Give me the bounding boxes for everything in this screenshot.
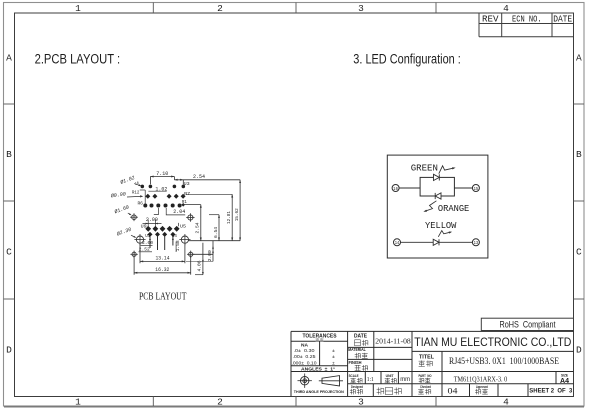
svg-text:2.54: 2.54 (193, 174, 205, 180)
svg-text:2.00: 2.00 (207, 250, 213, 261)
svg-text:TITEL: TITEL (419, 355, 434, 361)
svg-text:DATE: DATE (354, 334, 368, 340)
svg-text:B: B (576, 149, 582, 160)
svg-text:15.62: 15.62 (234, 208, 240, 221)
svg-text:±: ± (332, 348, 335, 354)
svg-text:2.04: 2.04 (173, 209, 185, 215)
svg-text:ECN NO.: ECN NO. (512, 15, 542, 25)
svg-text:±: ± (332, 354, 335, 360)
svg-text:TOLERANCES: TOLERANCES (303, 333, 338, 339)
svg-text:2014-11-08: 2014-11-08 (375, 337, 411, 345)
svg-text:NA: NA (301, 342, 309, 347)
svg-text:2.54: 2.54 (195, 222, 201, 233)
svg-text:15: 15 (474, 186, 479, 192)
svg-text:04: 04 (448, 386, 458, 395)
svg-text:U1: U1 (145, 235, 150, 239)
svg-text:ANGLES ± 1°: ANGLES ± 1° (301, 366, 335, 371)
svg-text:GREEN: GREEN (411, 163, 438, 174)
svg-text:Approved: Approved (476, 385, 488, 389)
svg-text:12.81: 12.81 (226, 211, 232, 224)
svg-text:SCALE: SCALE (349, 374, 359, 378)
svg-text:7.10: 7.10 (156, 171, 168, 177)
svg-text:.0± 0.30: .0± 0.30 (294, 348, 315, 354)
svg-text:A4: A4 (560, 378, 569, 385)
svg-text:4: 4 (503, 397, 509, 408)
svg-text:13.14: 13.14 (156, 256, 170, 262)
svg-text:R6: R6 (137, 201, 143, 207)
svg-text:16.32: 16.32 (155, 267, 169, 273)
svg-text:ORANGE: ORANGE (438, 203, 470, 214)
svg-text:2: 2 (217, 397, 223, 408)
svg-text:U5: U5 (180, 224, 186, 230)
svg-text:R12: R12 (132, 189, 140, 195)
svg-text:DATE: DATE (553, 15, 572, 25)
svg-text:YELLOW: YELLOW (425, 220, 457, 231)
svg-text:mm: mm (400, 376, 410, 383)
svg-text:C: C (576, 247, 582, 258)
svg-text:1:1: 1:1 (367, 376, 374, 383)
svg-text:SIZE: SIZE (561, 373, 569, 377)
svg-text:RJ45+USB3. 0X1 100/1000BASE: RJ45+USB3. 0X1 100/1000BASE (449, 356, 559, 367)
svg-text:Designed: Designed (351, 385, 363, 389)
svg-text:4: 4 (503, 3, 509, 14)
svg-text:REV: REV (482, 15, 499, 25)
svg-text:6.54: 6.54 (213, 227, 219, 238)
svg-text:RoHS Compliant: RoHS Compliant (500, 319, 556, 329)
svg-text:2: 2 (217, 3, 223, 14)
svg-text:U3: U3 (184, 181, 190, 187)
svg-text:D: D (6, 345, 12, 356)
svg-text:SHEET 2 OF 3: SHEET 2 OF 3 (529, 389, 573, 395)
svg-text:A: A (576, 53, 582, 64)
svg-text:FINISH: FINISH (349, 360, 362, 365)
svg-text:.00± 0.25: .00± 0.25 (293, 354, 316, 360)
svg-text:TM611Q31ARX-3. 0: TM611Q31ARX-3. 0 (454, 375, 508, 383)
svg-text:14: 14 (395, 240, 400, 246)
svg-text:C: C (6, 247, 12, 258)
svg-text:3: 3 (358, 397, 364, 408)
svg-text:2.00: 2.00 (142, 240, 153, 246)
svg-text:U4: U4 (172, 235, 177, 239)
svg-text:2.PCB LAYOUT :: 2.PCB LAYOUT : (35, 51, 121, 66)
svg-text:4.06: 4.06 (197, 260, 203, 271)
svg-text:PART NO: PART NO (419, 374, 432, 378)
svg-text:TIAN MU ELECTRONIC CO.,LTD: TIAN MU ELECTRONIC CO.,LTD (414, 335, 571, 349)
svg-text:16: 16 (393, 186, 398, 192)
svg-text:MATERIAL: MATERIAL (348, 347, 366, 352)
svg-text:UNIT: UNIT (386, 374, 395, 378)
svg-text:13: 13 (474, 240, 479, 246)
svg-text:1: 1 (75, 397, 81, 408)
svg-text:B: B (6, 149, 12, 160)
svg-text:1: 1 (75, 3, 81, 14)
svg-text:3. LED Configuration :: 3. LED Configuration : (353, 51, 461, 66)
svg-text:D: D (576, 345, 582, 356)
svg-text:THIRD ANGLE PROJECTION: THIRD ANGLE PROJECTION (294, 390, 345, 394)
svg-text:PCB LAYOUT: PCB LAYOUT (139, 291, 187, 302)
svg-text:3: 3 (358, 3, 364, 14)
svg-text:A: A (6, 53, 12, 64)
svg-text:2.00: 2.00 (146, 217, 158, 223)
svg-text:Checked: Checked (420, 385, 431, 389)
